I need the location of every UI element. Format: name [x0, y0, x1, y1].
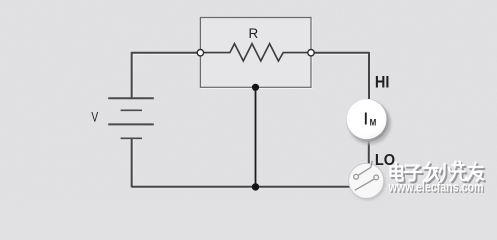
svg-text:V: V: [91, 109, 98, 125]
svg-text:M: M: [370, 117, 377, 128]
svg-text:www.elecfans.com: www.elecfans.com: [388, 180, 484, 195]
svg-text:HI: HI: [375, 74, 390, 92]
svg-text:I: I: [364, 110, 368, 129]
svg-text:R: R: [249, 25, 259, 41]
